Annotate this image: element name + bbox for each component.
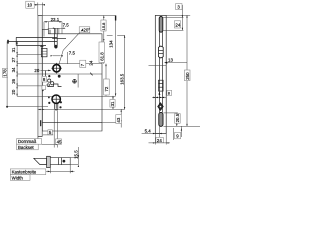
dim 20.5 bracket bbox=[163, 113, 200, 126]
boxed label 61.8 bbox=[99, 42, 104, 63]
boxed label 31 bbox=[110, 100, 115, 108]
dim 43 bbox=[116, 109, 122, 127]
plate dot bbox=[42, 90, 44, 92]
svg-text:250: 250 bbox=[185, 72, 190, 80]
svg-text:34: 34 bbox=[11, 67, 16, 72]
svg-text:15.8: 15.8 bbox=[101, 22, 106, 31]
svg-text:Backset: Backset bbox=[18, 145, 34, 150]
svg-text:31: 31 bbox=[11, 47, 16, 52]
svg-text:8: 8 bbox=[168, 92, 170, 96]
tick above case top bbox=[49, 30, 51, 34]
faceplate front outline bbox=[155, 15, 166, 133]
right stub lines from cylinder bbox=[38, 109, 125, 123]
dim 23.1 bbox=[44, 17, 62, 37]
svg-text:72: 72 bbox=[104, 86, 109, 91]
square spindle hole (diamond) bbox=[158, 103, 164, 111]
plate tick near deadbolt bbox=[40, 120, 41, 126]
cartridge slot bbox=[159, 80, 164, 91]
latch bolt protruding left bbox=[7, 37, 57, 45]
svg-text:43: 43 bbox=[116, 117, 121, 122]
angle label 20 deg with leader bbox=[59, 27, 91, 66]
svg-text:61.8: 61.8 bbox=[99, 52, 104, 61]
svg-text:24: 24 bbox=[89, 60, 94, 65]
plan view: case body bbox=[50, 158, 70, 165]
svg-text:5.4: 5.4 bbox=[145, 129, 152, 134]
svg-text:24: 24 bbox=[175, 23, 180, 28]
svg-text:15.5: 15.5 bbox=[73, 150, 78, 159]
dim 7.5 lower (follower) bbox=[51, 50, 76, 63]
right column: dim line 15.8/61.8 bbox=[103, 16, 104, 64]
latch opening (front) bbox=[159, 46, 164, 58]
top slotted screw hole bbox=[159, 17, 163, 33]
svg-text:27: 27 bbox=[11, 57, 16, 62]
Kastenbreite dim bbox=[46, 165, 75, 174]
screw circles bbox=[48, 79, 54, 85]
dim 24 (plate width, bottom) bbox=[149, 134, 171, 145]
latch spring box bbox=[41, 48, 47, 56]
boxed label 15.8 bbox=[101, 20, 106, 31]
svg-text:23.1: 23.1 bbox=[51, 17, 60, 22]
label 20 with arrow (follower) bbox=[34, 68, 50, 73]
Backset box bbox=[17, 144, 39, 150]
svg-text:20: 20 bbox=[11, 89, 16, 94]
svg-text:163.5: 163.5 bbox=[119, 73, 124, 85]
svg-text:134: 134 bbox=[108, 40, 113, 48]
svg-text:7.5: 7.5 bbox=[69, 50, 76, 55]
deadbolt slot lines bbox=[42, 122, 102, 124]
svg-text:31: 31 bbox=[110, 101, 115, 106]
bottom slotted hole bbox=[159, 112, 163, 126]
svg-text:Dornmaß: Dornmaß bbox=[18, 139, 37, 144]
svg-text:13: 13 bbox=[168, 58, 173, 63]
svg-text:Width: Width bbox=[12, 175, 24, 180]
cross marker on plate bbox=[40, 45, 43, 48]
backset dimension bbox=[35, 144, 57, 146]
tiny cross right bbox=[72, 73, 92, 88]
boxed label 72 bbox=[104, 79, 110, 95]
dim 9 (right bottom) bbox=[175, 126, 182, 138]
svg-text:20°: 20° bbox=[83, 28, 90, 33]
latch guide channel in case bbox=[52, 28, 66, 48]
right column 163.5 line bbox=[107, 35, 126, 109]
right column 134 line bbox=[108, 16, 116, 96]
dim 10 (top left) bbox=[26, 1, 45, 15]
small parts below follower: label 8 bbox=[42, 76, 47, 82]
label 5 below case bbox=[43, 130, 53, 135]
dim 7.5 upper bbox=[48, 22, 69, 33]
dim 5.4 (bottom left of right view) bbox=[142, 126, 162, 137]
follower hub bbox=[48, 63, 62, 78]
dim 13 bbox=[149, 58, 188, 66]
svg-text:26: 26 bbox=[11, 78, 16, 83]
Kastenbreite box bbox=[10, 169, 46, 175]
boxed label 7 bbox=[80, 60, 86, 67]
dim 178 vertical bbox=[2, 41, 48, 107]
svg-text:20.5: 20.5 bbox=[175, 113, 180, 122]
Width box bbox=[10, 175, 30, 181]
plan view: latch wedge bbox=[34, 158, 47, 164]
profile cylinder hole bbox=[48, 95, 62, 110]
left dimension chain line bbox=[16, 41, 115, 96]
channel lines bbox=[159, 31, 162, 113]
backset value box bbox=[56, 139, 63, 145]
tiny dims 4 and 8 bbox=[152, 90, 172, 98]
svg-text:4: 4 bbox=[158, 92, 160, 96]
svg-text:10: 10 bbox=[27, 3, 32, 8]
lever detail bbox=[47, 84, 62, 87]
svg-text:20: 20 bbox=[34, 68, 39, 73]
top extension line from faceplate top to right dim columns bbox=[42, 15, 115, 17]
svg-text:178: 178 bbox=[2, 69, 7, 77]
right column 72/31 line bbox=[105, 64, 113, 110]
lock case outline bbox=[42, 29, 102, 131]
svg-text:Kastenbreite: Kastenbreite bbox=[12, 170, 37, 175]
faceplate edge view bbox=[38, 16, 42, 145]
svg-text:45: 45 bbox=[57, 139, 62, 144]
Dornmass box bbox=[17, 139, 42, 145]
svg-text:7.5: 7.5 bbox=[63, 22, 70, 27]
mystery stub line bbox=[173, 128, 175, 140]
svg-text:24: 24 bbox=[157, 138, 162, 143]
oval length dim 24 (top) bbox=[163, 18, 183, 31]
dim 250 bbox=[166, 15, 190, 126]
tiny box on plate bbox=[42, 86, 46, 90]
dim 15.5 (plan) bbox=[70, 147, 79, 167]
top right small dims: 3 bbox=[176, 4, 183, 31]
plan view: faceplate strip bbox=[47, 156, 51, 167]
cylinder vertical guide lines to case bottom bbox=[54, 110, 57, 147]
lever guide vline bbox=[44, 71, 46, 78]
